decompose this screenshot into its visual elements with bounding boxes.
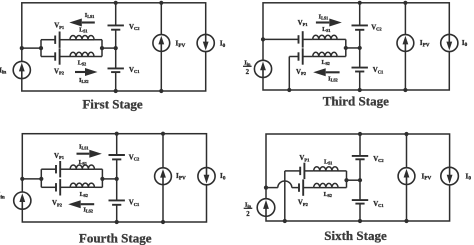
svg-text:ILS2: ILS2 bbox=[328, 76, 338, 83]
svg-text:ILS2: ILS2 bbox=[83, 207, 93, 214]
svg-text:2: 2 bbox=[246, 211, 250, 218]
svg-text:Iin: Iin bbox=[244, 59, 251, 66]
svg-text:LS2: LS2 bbox=[322, 60, 330, 66]
svg-text:LS2: LS2 bbox=[78, 61, 86, 67]
svg-text:Fourth Stage: Fourth Stage bbox=[79, 230, 152, 245]
svg-text:2: 2 bbox=[246, 69, 250, 76]
svg-text:LS2: LS2 bbox=[80, 192, 88, 198]
svg-text:First Stage: First Stage bbox=[82, 97, 143, 112]
svg-text:Iin: Iin bbox=[245, 201, 252, 208]
svg-text:LS1: LS1 bbox=[322, 27, 330, 33]
svg-text:ILS1: ILS1 bbox=[79, 144, 89, 151]
svg-text:LS1: LS1 bbox=[79, 160, 87, 166]
svg-text:ILS1: ILS1 bbox=[85, 12, 95, 19]
svg-text:LS1: LS1 bbox=[79, 28, 87, 34]
svg-text:ILS1: ILS1 bbox=[319, 13, 329, 20]
svg-text:Sixth Stage: Sixth Stage bbox=[324, 228, 387, 243]
svg-text:ILS2: ILS2 bbox=[79, 77, 89, 84]
svg-text:LS1: LS1 bbox=[324, 160, 332, 166]
svg-text:LS2: LS2 bbox=[324, 192, 332, 198]
svg-text:Third Stage: Third Stage bbox=[323, 94, 389, 109]
